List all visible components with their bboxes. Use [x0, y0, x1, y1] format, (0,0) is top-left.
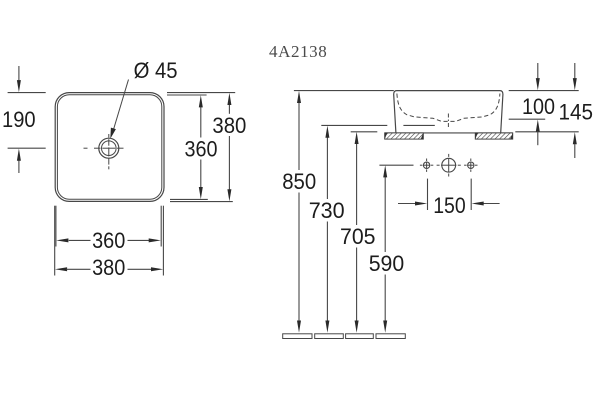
dim 190 upper arrow stem [18, 66, 20, 81]
hatch block right [475, 133, 512, 139]
dim 590 vertical line lower [384, 275, 386, 322]
dim 190 top extension line [8, 92, 46, 94]
dim 360 horizontal left arrowhead [56, 238, 68, 242]
dim 850 upper arrowhead [297, 91, 301, 103]
dim 190 lower arrowhead [17, 149, 21, 161]
dim 705 vertical line upper [356, 143, 358, 225]
faucet hole right cross horizontal right dash [475, 164, 478, 166]
svg-text:145: 145 [559, 99, 594, 124]
faucet hole right cross horizontal mid [468, 164, 475, 166]
dim 150 right extension [470, 179, 472, 210]
dim 590 vertical line upper [384, 177, 386, 252]
drain centerline vertical dash lower [108, 158, 110, 165]
svg-text:360: 360 [92, 228, 125, 253]
floor slab 3 [346, 334, 374, 339]
dim 360 horizontal right segment [128, 239, 150, 241]
dim 380 horizontal left segment [66, 268, 90, 270]
drain centerline horizontal dash far left [84, 147, 88, 149]
dim 730 upper arrowhead [325, 126, 329, 138]
basin front outline [394, 91, 503, 133]
faucet hole left cross vertical bottom dash [426, 169, 428, 172]
dim 850 lower arrowhead [297, 321, 301, 333]
faucet hole right [468, 162, 474, 168]
dim 360 vertical lower arrowhead [199, 187, 203, 199]
faucet center cross horizontal right dash [458, 164, 461, 166]
extension line 730 segment b [403, 124, 434, 126]
dim 380 vertical bottom extension [170, 201, 233, 203]
svg-text:380: 380 [212, 113, 246, 138]
faucet hole right cross vertical mid [470, 162, 472, 169]
dim 705 lower arrowhead [355, 321, 359, 333]
dim 360 horizontal right arrowhead [149, 238, 161, 242]
basin top view inner rim [57, 95, 161, 199]
dim 190 upper arrowhead [17, 80, 21, 92]
svg-text:4A2138: 4A2138 [269, 42, 327, 61]
dim 850 vertical line lower [298, 193, 300, 322]
drain centerline horizontal dash left [94, 147, 101, 149]
dim 145 upper arrow stem [574, 63, 576, 79]
drain centerline vertical dash upper [108, 139, 110, 146]
dim 730 vertical line upper [326, 137, 328, 199]
faucet center cross horizontal left dash [437, 164, 440, 166]
faucet hole right cross vertical bottom dash [470, 169, 472, 172]
svg-text:730: 730 [309, 198, 345, 223]
floor slab 1 [283, 334, 312, 339]
dim 145 lower arrow stem [574, 144, 576, 158]
dim 100 upper arrowhead [536, 78, 540, 90]
drain inner circle [102, 141, 117, 156]
faucet center cross vertical top dash [448, 154, 450, 157]
faucet center cross vertical mid [448, 158, 450, 172]
svg-text:705: 705 [340, 224, 376, 249]
bottom right extension line outer [162, 206, 164, 276]
dim 100 lower arrowhead [536, 120, 540, 132]
dim 705 upper arrowhead [355, 132, 359, 144]
dim 360 vertical line upper [200, 107, 202, 138]
faucet hole left cross vertical mid [426, 162, 428, 169]
faucet hole left [423, 162, 429, 168]
dim 360 vertical line lower [200, 160, 202, 188]
floor slab 4 [376, 334, 405, 339]
svg-text:360: 360 [185, 137, 218, 162]
drain centerline vertical dash top [108, 134, 110, 138]
floor slab 2 [315, 334, 344, 339]
faucet center cross vertical bottom dash [448, 174, 450, 177]
hatch block left end caps [385, 133, 424, 139]
svg-text:850: 850 [282, 169, 316, 194]
dim 150 left arrow line [398, 203, 416, 205]
dim 380 vertical line upper [228, 104, 230, 113]
hatch block right end caps [475, 133, 512, 139]
dim 730 lower arrowhead [325, 321, 329, 333]
drain outer circle [99, 138, 119, 158]
extension line 730 segment a [321, 124, 387, 126]
dim 380 vertical top extension [167, 92, 235, 94]
dim 380 vertical lower arrowhead [227, 189, 231, 201]
dim 590 lower arrowhead [383, 321, 387, 333]
extension line 100 bottom [509, 118, 546, 120]
dim 705 vertical line lower [356, 248, 358, 322]
dim 730 vertical line lower [326, 222, 328, 322]
svg-text:190: 190 [2, 107, 36, 132]
dim 150 left extension [427, 179, 429, 210]
bottom left extension line outer [54, 206, 56, 276]
dim 380 horizontal right arrowhead [151, 267, 163, 271]
hatch block left [385, 133, 424, 139]
dim 100 upper arrow stem [537, 63, 539, 79]
dim 150 left arrowhead [415, 202, 427, 206]
dim 150 right arrow line [483, 203, 500, 205]
svg-text:380: 380 [92, 255, 125, 280]
basin drain center mark vertical [447, 114, 449, 128]
faucet hole center [442, 158, 456, 172]
dim 380 vertical upper arrowhead [227, 93, 231, 105]
faucet centerline [379, 164, 413, 166]
leader arrowhead [110, 128, 116, 139]
extension line 145 bottom [515, 131, 578, 133]
drain centerline horizontal center [102, 147, 115, 149]
bottom left extension line inner [55, 206, 57, 247]
drain centerline vertical center [108, 147, 110, 156]
svg-text:100: 100 [522, 94, 555, 119]
drain centerline horizontal dash right [117, 147, 124, 149]
svg-text:590: 590 [369, 251, 405, 276]
dim 850 vertical line upper [298, 102, 300, 170]
dim 360 horizontal left segment [69, 239, 91, 241]
dim 360 vertical bottom extension [170, 198, 208, 200]
extension line 705 [351, 131, 378, 133]
dim 145 upper arrowhead [573, 78, 577, 90]
front view top extension line right [509, 90, 579, 92]
faucet center cross horizontal mid [441, 164, 456, 166]
faucet hole left cross horizontal left dash [420, 164, 423, 166]
dim 145 lower arrowhead [573, 132, 577, 144]
faucet hole right cross horizontal left dash [464, 164, 467, 166]
basin top view outer rim [55, 93, 164, 202]
faucet hole left cross vertical top dash [426, 159, 428, 162]
dim 380 horizontal right segment [128, 268, 153, 270]
svg-text:150: 150 [433, 193, 466, 218]
dim 360 vertical upper arrowhead [199, 95, 203, 107]
faucet hole right cross vertical top dash [470, 159, 472, 162]
dim 380 vertical line lower [228, 136, 230, 190]
basin inner bowl dashed [397, 94, 500, 122]
counter top line [385, 132, 513, 134]
bottom right extension line inner [160, 206, 162, 247]
dim 100 lower arrow stem [537, 131, 539, 145]
dim 190 centerline extension [8, 147, 46, 149]
leader line for diameter 45 [113, 80, 128, 131]
front view top extension line left [294, 90, 394, 92]
dim 150 right arrowhead [472, 202, 484, 206]
faucet hole left cross horizontal mid [423, 164, 430, 166]
svg-text:Ø 45: Ø 45 [134, 58, 178, 83]
faucet hole left cross horizontal right dash [431, 164, 434, 166]
dim 590 upper arrowhead [383, 165, 387, 177]
drain centerline vertical dash bottom [108, 166, 110, 169]
dim 360 vertical top extension [167, 94, 207, 96]
dim 190 lower arrow stem [18, 160, 20, 173]
dim 380 horizontal left arrowhead [55, 267, 67, 271]
